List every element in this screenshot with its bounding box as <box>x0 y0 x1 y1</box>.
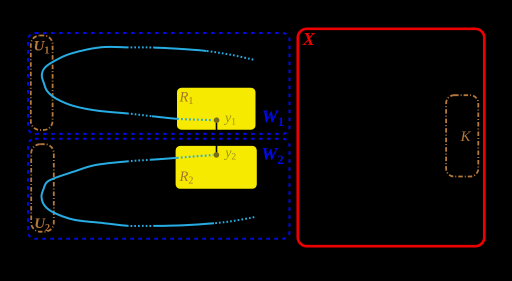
svg-text:X: X <box>302 29 316 49</box>
svg-text:K: K <box>460 129 472 145</box>
